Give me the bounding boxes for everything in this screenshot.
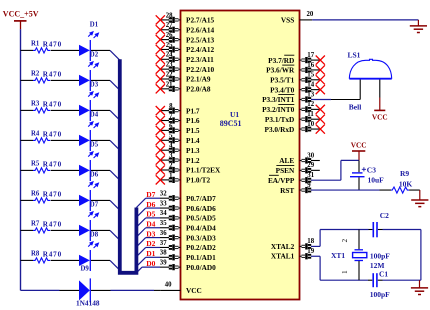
svg-text:D9: D9 (81, 266, 90, 273)
svg-text:40: 40 (165, 281, 172, 288)
svg-text:P3.7/RD: P3.7/RD (268, 56, 294, 65)
svg-text:R470: R470 (43, 131, 62, 139)
svg-text:37: 37 (160, 240, 167, 247)
svg-text:P0.3/AD3: P0.3/AD3 (186, 233, 216, 242)
svg-text:D4: D4 (90, 111, 99, 118)
svg-text:P0.2/AD2: P0.2/AD2 (186, 243, 216, 252)
svg-text:D2: D2 (90, 51, 99, 58)
svg-text:10: 10 (307, 121, 314, 128)
svg-text:P2.4/A12: P2.4/A12 (186, 45, 215, 54)
svg-text:15: 15 (307, 72, 314, 79)
svg-text:33: 33 (160, 200, 167, 207)
svg-text:P0.6/AD6: P0.6/AD6 (186, 204, 216, 213)
svg-text:XT1: XT1 (331, 251, 345, 260)
svg-text:R1: R1 (31, 41, 40, 48)
svg-text:14: 14 (307, 81, 314, 88)
svg-text:23: 23 (166, 62, 173, 69)
svg-text:R470: R470 (43, 251, 62, 259)
svg-text:P1.6: P1.6 (186, 116, 200, 125)
svg-text:25: 25 (166, 42, 173, 49)
svg-text:P2.7/A15: P2.7/A15 (186, 16, 215, 25)
svg-text:5: 5 (169, 133, 173, 140)
svg-text:13: 13 (307, 91, 314, 98)
svg-text:36: 36 (160, 230, 167, 237)
svg-text:R470: R470 (43, 221, 62, 229)
svg-text:D3: D3 (146, 229, 155, 238)
svg-text:R2: R2 (31, 71, 40, 78)
svg-text:P2.1/A9: P2.1/A9 (186, 75, 211, 84)
svg-text:8: 8 (169, 103, 173, 110)
svg-text:C2: C2 (380, 211, 389, 220)
svg-text:P3.4/T0: P3.4/T0 (270, 85, 294, 94)
svg-text:P0.0/AD0: P0.0/AD0 (186, 263, 216, 272)
svg-text:D1: D1 (90, 21, 99, 28)
svg-text:D6: D6 (146, 200, 155, 209)
svg-text:P3.3/INT1: P3.3/INT1 (262, 95, 295, 104)
svg-text:10K: 10K (399, 180, 413, 189)
svg-text:P1.4: P1.4 (186, 136, 200, 145)
svg-text:6: 6 (169, 123, 173, 130)
svg-text:P3.1/TxD: P3.1/TxD (265, 115, 294, 124)
svg-text:LS1: LS1 (348, 51, 361, 60)
svg-text:28: 28 (166, 12, 173, 19)
svg-text:D1: D1 (146, 249, 155, 258)
svg-text:P2.5/A13: P2.5/A13 (186, 35, 215, 44)
svg-text:P2.2/A10: P2.2/A10 (186, 65, 215, 74)
svg-text:ALE: ALE (279, 156, 294, 165)
svg-text:P2.3/A11: P2.3/A11 (186, 55, 214, 64)
svg-text:2: 2 (341, 238, 349, 242)
svg-text:39: 39 (160, 259, 167, 266)
svg-text:D2: D2 (146, 239, 155, 248)
svg-text:21: 21 (166, 81, 173, 88)
svg-text:P0.5/AD5: P0.5/AD5 (186, 214, 216, 223)
svg-text:100pF: 100pF (370, 251, 390, 260)
svg-text:D5: D5 (146, 210, 155, 219)
svg-text:38: 38 (160, 250, 167, 257)
svg-text:34: 34 (160, 210, 167, 217)
svg-text:P3.2/INT0: P3.2/INT0 (262, 105, 295, 114)
svg-text:R7: R7 (31, 221, 40, 228)
svg-text:D6: D6 (90, 171, 99, 178)
svg-text:R8: R8 (31, 251, 40, 258)
svg-text:EA/VPP: EA/VPP (268, 176, 295, 185)
svg-text:19: 19 (307, 248, 314, 255)
svg-text:R470: R470 (43, 71, 62, 79)
svg-text:P1.3: P1.3 (186, 146, 200, 155)
svg-text:Bell: Bell (349, 103, 362, 112)
svg-text:3: 3 (169, 153, 173, 160)
svg-text:VCC: VCC (372, 113, 388, 122)
svg-text:P3.5/T1: P3.5/T1 (270, 76, 294, 85)
svg-text:2: 2 (169, 162, 173, 169)
svg-text:12: 12 (307, 101, 314, 108)
svg-text:18: 18 (307, 238, 314, 245)
svg-text:D4: D4 (146, 219, 155, 228)
svg-text:P3.6/WR: P3.6/WR (266, 66, 295, 75)
svg-text:20: 20 (307, 11, 314, 18)
svg-text:D0: D0 (146, 259, 155, 268)
svg-text:11: 11 (307, 111, 314, 118)
svg-text:VCC: VCC (186, 286, 202, 295)
svg-text:D8: D8 (90, 231, 99, 238)
svg-text:16: 16 (307, 62, 314, 69)
svg-text:R470: R470 (43, 101, 62, 109)
svg-text:D3: D3 (90, 81, 99, 88)
svg-text:1N4148: 1N4148 (76, 299, 100, 308)
svg-text:35: 35 (160, 220, 167, 227)
svg-text:24: 24 (166, 52, 173, 59)
svg-text:C3: C3 (367, 165, 376, 174)
svg-text:26: 26 (166, 32, 173, 39)
svg-text:1: 1 (169, 172, 173, 179)
svg-text:7: 7 (169, 113, 173, 120)
svg-text:32: 32 (160, 191, 167, 198)
svg-text:1: 1 (341, 270, 349, 274)
svg-text:P2.0/A8: P2.0/A8 (186, 85, 211, 94)
svg-text:9: 9 (307, 182, 311, 189)
svg-text:P1.2: P1.2 (186, 156, 200, 165)
svg-text:RST: RST (280, 186, 294, 195)
svg-text:P1.7: P1.7 (186, 106, 200, 115)
svg-text:R470: R470 (43, 161, 62, 169)
svg-text:R5: R5 (31, 161, 40, 168)
svg-text:R6: R6 (31, 191, 40, 198)
svg-text:100pF: 100pF (370, 290, 390, 299)
svg-text:PSEN: PSEN (276, 166, 295, 175)
svg-text:P0.4/AD4: P0.4/AD4 (186, 223, 216, 232)
svg-text:R3: R3 (31, 101, 40, 108)
svg-text:R9: R9 (400, 169, 409, 178)
svg-text:4: 4 (169, 143, 173, 150)
svg-text:R470: R470 (43, 41, 62, 49)
svg-text:D5: D5 (90, 141, 99, 148)
svg-text:17: 17 (307, 52, 314, 59)
svg-text:P1.5: P1.5 (186, 126, 200, 135)
svg-text:89C51: 89C51 (220, 119, 242, 128)
svg-text:10uF: 10uF (368, 176, 385, 185)
svg-text:31: 31 (307, 172, 314, 179)
svg-text:30: 30 (307, 152, 314, 159)
svg-text:29: 29 (307, 162, 314, 169)
svg-text:P2.6/A14: P2.6/A14 (186, 25, 215, 34)
svg-text:P1.1/T2EX: P1.1/T2EX (186, 166, 221, 175)
svg-text:VCC_+5V: VCC_+5V (3, 10, 39, 19)
svg-text:22: 22 (166, 71, 173, 78)
svg-text:P0.1/AD1: P0.1/AD1 (186, 253, 216, 262)
svg-text:27: 27 (166, 22, 173, 29)
svg-text:VSS: VSS (281, 15, 294, 24)
svg-text:XTAL1: XTAL1 (271, 252, 295, 261)
svg-text:P3.0/RxD: P3.0/RxD (265, 125, 295, 134)
svg-text:P1.0/T2: P1.0/T2 (186, 176, 210, 185)
svg-text:C1: C1 (379, 269, 388, 278)
svg-text:P0.7/AD7: P0.7/AD7 (186, 194, 216, 203)
svg-text:D7: D7 (146, 190, 155, 199)
svg-text:VCC: VCC (351, 141, 367, 150)
svg-text:D7: D7 (90, 201, 99, 208)
svg-text:R4: R4 (31, 131, 40, 138)
svg-text:R470: R470 (43, 191, 62, 199)
svg-text:XTAL2: XTAL2 (271, 242, 295, 251)
